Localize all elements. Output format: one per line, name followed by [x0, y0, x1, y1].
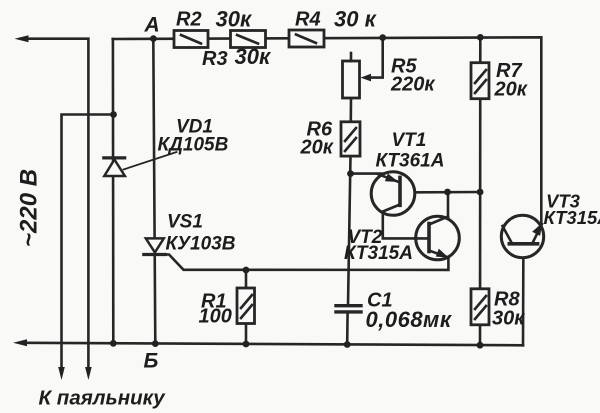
- wire: mains top lead: [26, 39, 88, 368]
- svg-text:А: А: [144, 14, 160, 37]
- svg-text:R2: R2: [176, 9, 202, 31]
- diode VD1: [104, 160, 125, 177]
- resistor R5 body (variable): [343, 61, 360, 98]
- node: R8 bottom on bottom line: [477, 342, 484, 349]
- svg-text:КТ315А: КТ315А: [344, 243, 413, 264]
- wire: R5 bottom lead to R6 top: [349, 98, 352, 122]
- wire: VS1 branch from node A down to node B: [153, 39, 155, 344]
- node: VD1 bottom on bottom line: [110, 340, 117, 347]
- svg-text:КУ103В: КУ103В: [166, 234, 236, 255]
- wire: R1 branch from gate wire to bottom line: [245, 270, 248, 344]
- svg-text:20к: 20к: [494, 79, 528, 101]
- wire: R7-R8 rail: [479, 37, 482, 345]
- resistor R3 body: [231, 31, 266, 48]
- node B junction dot: [152, 340, 159, 347]
- svg-text:Б: Б: [144, 350, 159, 373]
- arrow left mains top: [15, 35, 29, 42]
- svg-text:КТ361А: КТ361А: [376, 151, 445, 172]
- node: R5 wiper junction on top bus: [379, 34, 386, 41]
- svg-text:VS1: VS1: [167, 212, 203, 233]
- svg-text:КТ315А: КТ315А: [544, 207, 600, 228]
- svg-text:К паяльнику: К паяльнику: [39, 387, 167, 410]
- svg-text:VT1: VT1: [392, 130, 427, 151]
- resistor R4 body: [289, 30, 324, 47]
- transistor VT3 (NPN KT315A, base down): [501, 215, 543, 257]
- svg-text:КД105В: КД105В: [158, 135, 229, 156]
- node: R7 top junction on top bus: [477, 34, 484, 41]
- resistor R1 body: [237, 288, 255, 324]
- node A junction dot: [150, 35, 157, 42]
- svg-text:R3: R3: [202, 48, 228, 70]
- svg-text:30 к: 30 к: [334, 7, 378, 32]
- arrow left mains bottom: [13, 339, 27, 346]
- R5 top stub: [350, 53, 353, 61]
- svg-text:100: 100: [199, 306, 232, 328]
- svg-text:0,068мк: 0,068мк: [366, 307, 453, 332]
- arrow down iron lead 1: [58, 367, 65, 380]
- svg-text:20к: 20к: [300, 137, 334, 159]
- wire: VT2 collector lead up: [447, 192, 450, 217]
- wire: VT1 collector down to VT2 base: [383, 211, 429, 238]
- svg-text:30к: 30к: [235, 44, 272, 69]
- wire: VT3 base lead down to bottom line right end: [522, 244, 525, 346]
- wire: R6 bottom junction down through gate wire to C1: [348, 156, 351, 306]
- node: R1 top on gate wire: [243, 267, 250, 274]
- resistor R2 body: [174, 31, 208, 48]
- node: R1 bottom on bottom line: [243, 341, 250, 348]
- VD1 callout line: [124, 152, 177, 170]
- R5 wiper arm: [369, 38, 383, 78]
- wire: top bus from VD1 corner to right rail corner: [113, 37, 542, 222]
- svg-text:~220 В: ~220 В: [16, 169, 43, 247]
- svg-text:220к: 220к: [390, 74, 435, 96]
- svg-text:30к: 30к: [216, 7, 253, 32]
- node: VT1 base / VT2 collector junction: [444, 189, 451, 196]
- wire: C1 bottom lead: [346, 312, 349, 343]
- wire: VS1 gate to R1, C1 crossing, VT2 emitter: [164, 255, 448, 270]
- wire: iron lead 1 from VD1 junction: [62, 115, 114, 369]
- capacitor C1 plates: [336, 304, 361, 307]
- wire: VT1 emitter lead: [351, 172, 387, 175]
- resistor R7 body: [471, 63, 489, 99]
- svg-text:30к: 30к: [492, 308, 525, 330]
- node: R6 bottom / VT1 emitter junction: [347, 170, 354, 177]
- node: VD1 / iron lead junction: [110, 111, 117, 118]
- transistor VT2 (NPN KT315A): [416, 216, 460, 260]
- R5 wiper arrowhead: [361, 74, 372, 82]
- node: C1 bottom on bottom line: [344, 341, 351, 348]
- svg-text:R4: R4: [295, 9, 321, 31]
- wire: VT1 base to R7 rail: [400, 191, 480, 194]
- thyristor VS1: [146, 238, 164, 252]
- node: R7 bottom junction: [477, 189, 484, 196]
- arrow down iron lead 2: [85, 367, 92, 380]
- resistor R8 body: [471, 289, 489, 325]
- resistor R6 body: [341, 122, 360, 156]
- wire: bottom line: [25, 343, 523, 346]
- wire: VD1 branch A to bottom line: [112, 39, 115, 344]
- transistor VT1 (PNP KT361A): [371, 172, 415, 216]
